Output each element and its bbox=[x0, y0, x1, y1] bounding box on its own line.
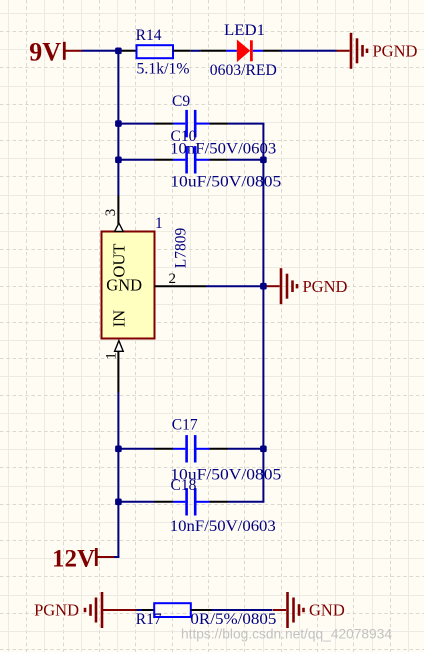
svg-text:L7809: L7809 bbox=[172, 228, 189, 269]
svg-text:IN: IN bbox=[110, 310, 129, 327]
svg-text:9V: 9V bbox=[29, 37, 61, 66]
svg-text:3: 3 bbox=[103, 209, 119, 217]
svg-text:R14: R14 bbox=[136, 27, 162, 44]
svg-text:10nF/50V/0603: 10nF/50V/0603 bbox=[170, 518, 276, 535]
svg-text:10uF/50V/0805: 10uF/50V/0805 bbox=[170, 173, 281, 190]
svg-text:1: 1 bbox=[155, 215, 163, 232]
svg-text:PGND: PGND bbox=[373, 42, 418, 61]
svg-text:1: 1 bbox=[104, 352, 120, 360]
svg-text:C18: C18 bbox=[171, 477, 197, 494]
svg-text:C17: C17 bbox=[172, 416, 198, 433]
svg-text:https://blog.csdn.net/qq_42078: https://blog.csdn.net/qq_42078934 bbox=[181, 626, 392, 642]
svg-text:C9: C9 bbox=[172, 93, 190, 110]
svg-text:10nF/50V/0603: 10nF/50V/0603 bbox=[170, 141, 276, 158]
svg-text:LED1: LED1 bbox=[224, 22, 265, 39]
svg-text:12V: 12V bbox=[52, 546, 95, 573]
svg-text:PGND: PGND bbox=[34, 601, 79, 620]
svg-text:R17: R17 bbox=[136, 611, 162, 628]
svg-text:PGND: PGND bbox=[303, 277, 348, 296]
svg-text:GND: GND bbox=[309, 601, 345, 620]
svg-text:OUT: OUT bbox=[110, 244, 129, 278]
svg-text:5.1k/1%: 5.1k/1% bbox=[137, 60, 190, 77]
svg-text:2: 2 bbox=[169, 271, 177, 287]
svg-text:0603/RED: 0603/RED bbox=[210, 62, 277, 79]
svg-text:GND: GND bbox=[106, 275, 142, 294]
